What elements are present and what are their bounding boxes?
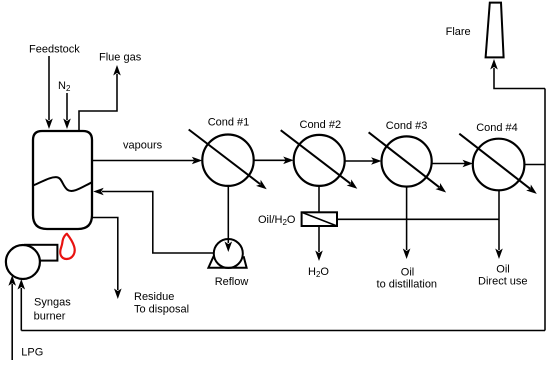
svg-text:burner: burner (34, 311, 66, 323)
wire condenser 3 to condenser 4 (432, 163, 465, 165)
pump reflow (214, 239, 243, 268)
svg-text:Cond #4: Cond #4 (476, 122, 518, 134)
wire condenser 1 to condenser 2 (254, 159, 286, 161)
condenser 3 (382, 136, 432, 186)
burner syngas blower (6, 245, 40, 279)
condenser 2 coolant diagonal (281, 130, 351, 184)
svg-text:Direct use: Direct use (478, 276, 528, 288)
wire LPG feed (11, 284, 13, 360)
svg-text:Flue gas: Flue gas (99, 52, 142, 64)
wire gas line to flare (494, 68, 545, 89)
svg-text:Residue: Residue (134, 291, 174, 303)
wire vessel residue outlet (92, 218, 118, 291)
wire gas return riser to burner (20, 288, 22, 331)
svg-text:Oil: Oil (401, 267, 414, 279)
wire separator water outlet (318, 226, 320, 252)
svg-text:Reflow: Reflow (215, 276, 249, 288)
separator oil/water (302, 212, 337, 226)
wire condenser 4 oil outlet (498, 190, 500, 250)
flame (60, 234, 74, 259)
wire condenser 3 oil outlet (406, 187, 408, 251)
wire nitrogen inlet (66, 93, 68, 120)
svg-text:Cond #3: Cond #3 (386, 120, 428, 132)
condenser 3 coolant diagonal (369, 132, 440, 187)
condenser 2 (294, 135, 345, 186)
condenser 1 (202, 135, 253, 186)
wire feedstock inlet (48, 56, 50, 120)
svg-text:To disposal: To disposal (134, 304, 189, 316)
wire reflow return to vessel (102, 192, 213, 254)
wire condenser 1 condensate to pump (227, 186, 229, 243)
svg-text:Cond #1: Cond #1 (208, 117, 250, 129)
svg-text:Oil/H2O: Oil/H2O (258, 214, 296, 227)
svg-text:to distillation: to distillation (377, 279, 438, 291)
condenser 4 (473, 139, 525, 191)
condenser 4 coolant diagonal (459, 134, 530, 189)
svg-text:H2O: H2O (308, 266, 329, 279)
wire condenser 2 condensate to separator (318, 186, 320, 212)
wire separator oil line to direct use header (337, 218, 499, 220)
wire flue gas line (79, 74, 117, 131)
vessel reactor (33, 131, 92, 229)
burner outlet duct (25, 245, 57, 261)
wire gas header down right side (544, 89, 546, 331)
flare stack (486, 3, 504, 58)
wire condenser 2 to condenser 3 (345, 160, 374, 162)
svg-text:Feedstock: Feedstock (29, 44, 80, 56)
svg-text:N2: N2 (58, 80, 71, 93)
svg-text:vapours: vapours (123, 140, 163, 152)
svg-text:Flare: Flare (446, 26, 471, 38)
wire gas return bottom line (21, 330, 545, 332)
wire vapours line to condenser 1 (92, 160, 194, 162)
wire gas return arrow into burner (18, 279, 26, 290)
wire condenser 4 outlet to gas header (524, 164, 545, 166)
svg-text:Syngas: Syngas (34, 297, 71, 309)
condenser 1 coolant diagonal (189, 130, 260, 185)
svg-text:Oil: Oil (496, 264, 509, 276)
liquid level wavy line (33, 177, 92, 191)
svg-text:LPG: LPG (21, 347, 43, 359)
svg-text:Cond #2: Cond #2 (300, 119, 342, 131)
